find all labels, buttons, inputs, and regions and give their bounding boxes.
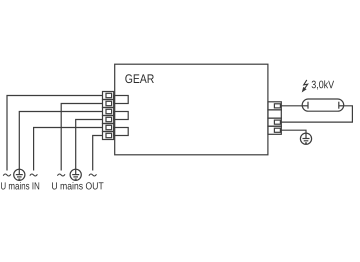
pin 4 contact: [106, 117, 112, 121]
wire pin3 to PE-in terminal: [19, 112, 102, 170]
pin 1 contact: [106, 93, 112, 97]
lamp LA1 envelope: [302, 99, 344, 111]
lamp left electrode: [302, 102, 308, 109]
wire pin2 to L-out terminal: [61, 104, 102, 171]
pin 3 contact: [106, 109, 112, 113]
pin R3 contact: [274, 128, 280, 132]
ignition voltage flash arrow: [302, 80, 307, 92]
pin 2 contact: [106, 101, 112, 105]
connector X2 body (right, 4 poles): [268, 102, 281, 135]
wire pin5 to N-in terminal: [34, 128, 103, 171]
pin R1 contact: [274, 104, 280, 108]
internal link pins 1-2: [114, 96, 129, 104]
lamp right electrode: [339, 102, 344, 109]
terminal ~ (mains IN phase): [3, 174, 11, 176]
wire pin4 to PE-out terminal: [76, 120, 103, 170]
label U mains OUT: [52, 182, 103, 189]
terminal ~ (mains OUT phase): [57, 174, 65, 176]
wire pin6 to N-out terminal: [93, 136, 103, 171]
wire pin R1 to lamp: [281, 105, 302, 107]
pin 6 contact: [106, 133, 112, 137]
internal link pins 5-6: [114, 128, 129, 136]
earth terminal IN: [14, 169, 25, 180]
terminal ~ (mains IN neutral): [30, 174, 38, 176]
gear box outline: [115, 64, 268, 155]
label GEAR: [125, 74, 154, 83]
wire pin1 to L-in terminal: [7, 96, 103, 171]
wire pin R3 to lamp earth: [281, 130, 306, 133]
earth symbol lamp: [300, 133, 311, 144]
earth terminal OUT: [70, 169, 81, 180]
pin R2 contact: [274, 120, 280, 124]
label 3,0kV: [312, 80, 334, 89]
terminal ~ (mains OUT neutral): [89, 174, 97, 176]
wire lamp return to pin R2: [281, 106, 352, 122]
connector X1 body (left, 6 poles): [103, 92, 114, 140]
internal link pins 3-4: [114, 112, 129, 120]
pin 5 contact: [106, 125, 112, 129]
label U mains IN: [1, 182, 39, 189]
